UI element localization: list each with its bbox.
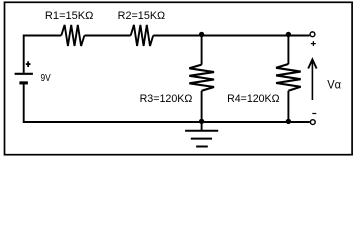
svg-text:R3=120KΩ: R3=120KΩ	[140, 93, 193, 105]
svg-text:R4=120KΩ: R4=120KΩ	[227, 93, 279, 105]
arrow: Vo direction	[308, 59, 316, 100]
wire: top rail between R1 and R2	[84, 35, 130, 37]
node: R3 bottom junction	[199, 119, 204, 124]
ground	[185, 122, 218, 147]
battery V1 plus sign	[26, 61, 31, 67]
terminal: - output (open circle)	[310, 120, 315, 125]
wire: R3 bottom lead	[201, 91, 203, 122]
border frame	[5, 2, 353, 154]
wire: R4 top lead	[287, 36, 289, 65]
svg-text:Vα: Vα	[327, 79, 341, 91]
svg-text:R1=15KΩ: R1=15KΩ	[45, 10, 94, 22]
resistor R1	[61, 25, 84, 46]
wire: top rail from R2 to + terminal	[153, 35, 309, 37]
wire: top rail left segment	[24, 36, 62, 73]
battery V1 bottom plate	[19, 81, 28, 84]
terminal: + output (open circle)	[310, 32, 315, 37]
label: - polarity	[312, 113, 316, 115]
wire: left rail below battery	[23, 83, 25, 122]
resistor R2	[131, 25, 154, 46]
wire: bottom rail	[23, 121, 310, 123]
svg-text:R2=15KΩ: R2=15KΩ	[118, 10, 166, 22]
resistor R3	[189, 65, 214, 91]
node: R4 top junction	[286, 32, 291, 37]
svg-text:9V: 9V	[41, 73, 51, 84]
wire: R3 top lead	[201, 36, 203, 65]
node: R3 top junction	[199, 32, 204, 37]
label: + polarity	[311, 41, 316, 46]
resistor R4	[276, 64, 301, 91]
node: R4 bottom junction	[286, 119, 291, 124]
battery V1 top plate	[15, 73, 33, 75]
wire: R4 bottom lead	[287, 91, 289, 122]
